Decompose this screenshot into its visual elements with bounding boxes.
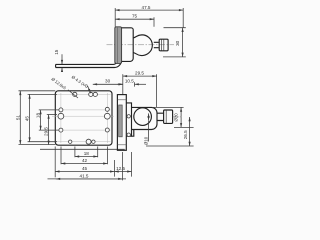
svg-text:12.5: 12.5 [116,166,125,171]
svg-text:47.5: 47.5 [142,5,151,10]
svg-text:42: 42 [82,158,88,163]
svg-text:41.5: 41.5 [80,173,89,178]
svg-text:26.5: 26.5 [183,130,188,139]
svg-text:18: 18 [84,151,90,156]
svg-text:30: 30 [105,79,111,84]
svg-text:29.5: 29.5 [135,71,144,76]
svg-text:30: 30 [175,40,180,46]
svg-text:29.5: 29.5 [44,127,49,136]
svg-text:51: 51 [15,115,20,121]
svg-text:75: 75 [132,14,138,19]
svg-text:Ø10: Ø10 [144,136,149,145]
svg-text:10.5: 10.5 [125,79,134,84]
svg-text:45: 45 [25,116,30,122]
svg-text:15: 15 [54,49,59,55]
svg-text:45: 45 [82,166,88,171]
svg-text:18: 18 [36,113,41,119]
